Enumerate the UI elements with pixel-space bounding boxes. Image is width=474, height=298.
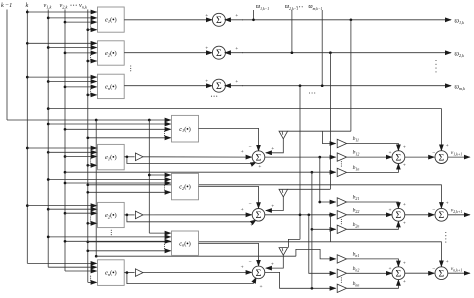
wire input 2 into e1 [48, 17, 96, 19]
junction on input column for e2 input 2 [47, 46, 50, 49]
svg-text:Σ: Σ [396, 210, 402, 221]
wire +v1 to final summator 1 [48, 109, 441, 151]
final summator group n [435, 267, 448, 280]
junction input column lower e1 in 4 [86, 164, 89, 167]
svg-text:+: + [446, 259, 449, 265]
vdots between bn2 and bnn [341, 277, 342, 283]
svg-text:Σ: Σ [396, 269, 402, 280]
wire input 3 into e1 [65, 21, 97, 23]
buffer amp after lower e2 [135, 211, 143, 219]
wire input 4 into lower en [88, 281, 97, 283]
junction v1 c3 [47, 236, 50, 239]
junction input column lower e1 in 1 [26, 147, 29, 150]
function box e2 [98, 41, 125, 65]
junction lower en output split [126, 271, 129, 274]
wire weight summator to final summator 2 [405, 214, 435, 216]
gain triangle b11 [337, 139, 346, 147]
svg-text:Σ: Σ [256, 210, 262, 221]
svg-text:−: − [248, 259, 251, 265]
gain triangle bnn [337, 284, 346, 292]
wire output row to omega_2 [242, 52, 451, 54]
junction v1 c2 [47, 178, 50, 181]
wire vn into c1 [88, 137, 171, 139]
weight summator group n [392, 267, 405, 280]
wire input 2 into lower e1 [48, 151, 96, 153]
wire sig1 down to b21 row [319, 157, 321, 202]
wire k-1 branch vertical [148, 120, 150, 233]
junction sig1 tap down [318, 156, 321, 159]
svg-text:e2(•): e2(•) [105, 50, 117, 57]
junction n-column on v2 long wire [311, 171, 314, 174]
junction on input column for en input 1 [26, 76, 29, 79]
wire input 2 into en [48, 81, 96, 83]
gain triangle b2n [337, 225, 346, 233]
hdots below third top row right [309, 92, 315, 93]
function box lower e2 [98, 202, 125, 227]
delay nabla 1 [279, 131, 288, 139]
gain triangle b1n [337, 168, 346, 176]
junction v2 c3 [64, 240, 67, 243]
svg-text:+: + [241, 265, 244, 271]
wire into b2n [312, 228, 336, 230]
junction on input column for en input 3 [64, 86, 67, 89]
gain triangle bn1 [337, 255, 346, 263]
junction sig2 tap down [307, 213, 310, 216]
vdots before last input of lower e2 [90, 217, 91, 222]
wire input 4 into lower e2 [88, 222, 97, 224]
junction sig1 to b21 [318, 201, 321, 204]
junction input column lower e2 in 4 [86, 222, 89, 225]
svg-text:c2(•): c2(•) [179, 184, 191, 191]
wire e-box output row 2 to summator [124, 52, 212, 54]
wire nabla2 output into group summator 2 [266, 197, 283, 211]
junction sig-n column bottom [311, 287, 314, 290]
wire b21 to weight summator [347, 202, 399, 208]
wire k-1 branch into c2 [149, 174, 170, 176]
wire bypass 1 into group summator bottom [127, 157, 256, 164]
wire output row to omega_m [242, 85, 451, 87]
wire input 2 into lower e2 [48, 208, 96, 210]
wire k-1 branch into c3 [149, 232, 170, 234]
wire k-1 long branch vertical [95, 120, 97, 256]
gain triangle b22 [337, 211, 346, 219]
wire final output n [448, 272, 470, 274]
wire bypass 2 into group summator bottom [127, 215, 256, 222]
junction lower e2 output split [126, 214, 129, 217]
svg-text:Σ: Σ [439, 269, 445, 280]
svg-text:+: + [205, 13, 208, 19]
vdots before last input of en [90, 89, 91, 94]
svg-text:+: + [205, 79, 208, 85]
svg-text:+: + [403, 220, 406, 226]
wire input 1 into e2 [27, 42, 96, 44]
wire vn vertical [87, 10, 89, 283]
svg-text:+: + [250, 222, 253, 228]
wire e-box output row m to summator [124, 85, 212, 87]
ellipsis between v labels [70, 5, 76, 6]
svg-text:+: + [259, 284, 262, 290]
wire into b21 [320, 201, 336, 203]
final summator group 1 [435, 151, 448, 164]
svg-text:Σ: Σ [396, 153, 402, 164]
final summator group 2 [435, 208, 448, 221]
vdots before last input of lower en [90, 276, 91, 281]
wire lower e1 output to buffer [124, 156, 134, 158]
svg-text:Σ: Σ [256, 153, 262, 164]
wire c1 output into group summator top [199, 128, 259, 150]
svg-text:+: + [403, 202, 406, 208]
wire input 1 into en [27, 76, 96, 78]
wire v1 into c1 [48, 123, 170, 125]
wire b22 to weight summator [347, 214, 392, 216]
svg-text:+: + [388, 150, 391, 156]
junction on b22 row with vertical stub [329, 213, 332, 216]
svg-text:−: − [432, 208, 435, 214]
wire input 3 into en [65, 86, 97, 88]
function box en [98, 74, 125, 98]
wire vertical stub x330 down to +vn wire [329, 215, 331, 242]
summator top row m [212, 79, 225, 92]
junction on input column for e2 input 1 [26, 42, 29, 45]
wire v2 into c1 [65, 128, 171, 130]
svg-text:+: + [258, 164, 261, 170]
junction row1 feedback tap [350, 18, 353, 21]
wire sig-n column vertical [311, 172, 313, 288]
svg-text:+: + [235, 13, 238, 19]
junction k-1 branch corner bottom [95, 255, 98, 258]
wire weight summator to final summator 1 [405, 156, 435, 158]
junction vn column to +v wire 3 [86, 240, 89, 243]
wire input 1 into lower en [27, 262, 96, 264]
svg-text:+: + [271, 261, 274, 267]
function box e1 [98, 7, 125, 32]
junction on input column for e1 input 3 [64, 21, 67, 24]
buffer amp after lower e1 [135, 153, 143, 161]
wire input 1 into e1 [27, 11, 96, 13]
function box lower en [98, 260, 125, 286]
svg-text:e2(•): e2(•) [105, 212, 117, 219]
svg-text:+: + [403, 145, 406, 151]
wire b1n to weight summator [347, 164, 399, 173]
delay nabla 3 [279, 248, 288, 256]
wire v2 vertical [64, 10, 66, 272]
buffer amp after lower en [135, 269, 143, 277]
weight summator group 1 [392, 151, 405, 164]
svg-text:+: + [403, 163, 406, 169]
wire final output 1 [448, 156, 470, 158]
wire input 4 into lower e1 [88, 164, 97, 166]
wire omegam k-1 down to row 3 [321, 10, 323, 86]
svg-text:k −1: k −1 [1, 2, 12, 9]
wire input 4 into en [88, 94, 97, 96]
wire k-1 vertical [6, 10, 8, 121]
junction vn c3 [86, 249, 89, 252]
svg-text:−: − [248, 201, 251, 207]
wire tap omega1 to b11 [322, 131, 335, 143]
wire input 3 into lower e2 [65, 212, 97, 214]
svg-text:Σ: Σ [216, 48, 222, 59]
svg-text:+: + [271, 146, 274, 152]
junction row2 feedback tap [329, 51, 332, 54]
junction omegam row3 [321, 84, 324, 87]
wire k-1 branch horizontal to b_n1 riser [96, 255, 296, 257]
wire input 4 into e2 [88, 60, 97, 62]
wire bn1 to weight summator [347, 259, 399, 267]
junction k-1 branch to c2 [148, 174, 151, 177]
wire vn into c2 [88, 191, 171, 193]
wire input 1 into lower e2 [27, 205, 96, 207]
junction lower e1 output split [126, 155, 129, 158]
summator top row 2 [212, 46, 225, 59]
wire group summator 3 output to b_nn [265, 272, 336, 288]
wire v2 into c3 [65, 240, 171, 242]
hdots below en box [211, 96, 217, 97]
junction v2 to b1n long wire [64, 171, 67, 174]
svg-text:+: + [235, 79, 238, 85]
junction on input column for en input 2 [47, 80, 50, 83]
vdots before last input of c2 [164, 185, 165, 190]
group summator n [252, 266, 265, 279]
function box c2 [172, 173, 199, 199]
wire right input into top summator 2 [225, 52, 243, 54]
junction row3 feedback tap [299, 84, 302, 87]
wire feedback omega2 vertical [329, 53, 331, 190]
wire k-1 into c1 input 1 [7, 119, 171, 121]
wire input 3 into e2 [65, 52, 97, 54]
wire bypass n into group summator bottom [127, 273, 256, 284]
wire feedback omega1 into nabla1 [288, 130, 351, 132]
junction on input column for e1 input 4 [86, 28, 89, 31]
svg-text:Σ: Σ [439, 153, 445, 164]
junction k-1 branch down [148, 119, 151, 122]
junction input column lower e1 in 3 [64, 155, 67, 158]
wire right input into top summator 1 [225, 19, 243, 21]
wire feedback omega1 vertical [350, 20, 352, 131]
wire b12 to weight summator [347, 156, 392, 158]
vdots before last input of c1 [164, 131, 165, 136]
svg-text:−: − [248, 144, 251, 150]
wire k vertical [26, 10, 28, 264]
function box cn [172, 231, 199, 255]
wire output row to omega_1 [242, 19, 451, 21]
junction v2 c2 [64, 182, 67, 185]
wire sig2 down into b_n2 [309, 215, 336, 273]
wire nabla3 output into group summator 3 [266, 255, 283, 268]
ellipsis between omega labels [296, 6, 302, 7]
vdots below lower e2 box [111, 230, 112, 236]
wire k-1 branch into b_n1 [296, 249, 336, 259]
svg-text:en(•): en(•) [105, 84, 117, 91]
svg-text:+: + [241, 207, 244, 213]
wire buffer 2 to group summator left [143, 214, 252, 216]
svg-text:+: + [403, 279, 406, 285]
gain triangle b21 [337, 198, 346, 206]
svg-text:+: + [235, 46, 238, 52]
wire v1 into c2 [48, 179, 170, 181]
wire buffer 1 to group summator left [143, 156, 252, 158]
wire lower e2 output to buffer [124, 214, 134, 216]
wire v2 long feed into b1n [65, 171, 336, 173]
group summator 2 [252, 209, 265, 222]
vdots before last input of e2 [90, 55, 91, 60]
wire vn into c3 [88, 250, 171, 252]
wire +vn to final summator 3 [88, 242, 442, 267]
gain triangle b12 [337, 153, 346, 161]
wire input 3 into lower en [65, 270, 97, 272]
vdots between omega outputs [435, 60, 436, 72]
wire v1 into c3 [48, 236, 170, 238]
junction on input column for e1 input 2 [47, 17, 50, 20]
vdots before last input of e1 [90, 24, 91, 29]
wire group summator 2 output to b22 [265, 214, 336, 216]
delay nabla 2 [279, 189, 288, 197]
svg-text:Σ: Σ [216, 15, 222, 26]
wire input 3 into lower e1 [65, 156, 97, 158]
junction vn column to +v wire 2 [86, 183, 89, 186]
wire input 1 into lower e1 [27, 147, 96, 149]
svg-text:+: + [446, 143, 449, 149]
wire v1 vertical [47, 10, 49, 268]
svg-text:en(•): en(•) [105, 270, 117, 277]
svg-text:Σ: Σ [439, 210, 445, 221]
junction omega2 row2 [291, 51, 294, 54]
wire nabla1 output into group summator 1 [266, 139, 283, 153]
junction on input column for e2 input 4 [86, 60, 89, 63]
junction v2 c1 [64, 128, 67, 131]
svg-text:Σ: Σ [216, 81, 222, 92]
junction vn c1 [86, 136, 89, 139]
junction omegam line on sig2 row [299, 213, 302, 216]
svg-text:e1(•): e1(•) [105, 17, 117, 24]
wire right input into top summator m [225, 85, 243, 87]
wire feedback omegam jog into nabla3 [288, 239, 300, 247]
wire omega2 k-1 down to row 2 [291, 10, 293, 53]
gain triangle bn2 [337, 269, 346, 277]
wire e-box output row 1 to summator [124, 19, 212, 21]
wire group summator 1 output to b12 [265, 156, 336, 158]
wire omega1 k-1 down to row 1 [253, 10, 255, 20]
svg-text:c1(•): c1(•) [179, 126, 191, 133]
vdots between b22 and b2n [341, 219, 342, 225]
svg-text:Σ: Σ [256, 268, 262, 279]
svg-text:+: + [205, 46, 208, 52]
svg-text:+: + [388, 208, 391, 214]
wire bn2 to weight summator [347, 272, 392, 274]
function box lower e1 [98, 144, 125, 169]
wire input 2 into lower en [48, 266, 96, 268]
vdots before last input of cn [164, 244, 165, 249]
junction v1 c1 [47, 123, 50, 126]
wire buffer n to group summator left [143, 271, 252, 273]
junction sig-n to b2n [311, 228, 314, 231]
wire input 4 into e1 [88, 29, 97, 31]
wire v2 into c2 [65, 182, 171, 184]
svg-text:k: k [26, 2, 29, 9]
summator top row 1 [212, 13, 225, 26]
wire +v2 to final summator 2 [88, 185, 442, 208]
junction input column lower e2 in 1 [26, 204, 29, 207]
wire b2n to weight summator [347, 221, 399, 229]
junction input column lower e2 in 3 [64, 212, 67, 215]
junction v1 to +v wire [47, 107, 50, 110]
junction input column lower e1 in 2 [47, 151, 50, 154]
vdots between b12 and b1n [341, 161, 342, 167]
wire lower en output to buffer [124, 272, 134, 274]
svg-text:−: − [432, 266, 435, 272]
svg-text:e1(•): e1(•) [105, 154, 117, 161]
wire bnn to weight summator [347, 280, 399, 289]
wire final output 2 [448, 214, 470, 216]
junction on input column for e2 input 3 [64, 52, 67, 55]
junction k-1 to long branch [95, 119, 98, 122]
wire feedback omegam vertical [299, 86, 301, 240]
svg-text:+: + [446, 201, 449, 207]
vdots between e2 and en rows [130, 65, 131, 71]
junction on input column for en input 4 [86, 94, 89, 97]
wire c2 output into group summator top [199, 186, 259, 208]
junction input column lower e2 in 2 [47, 208, 50, 211]
junction on input column for e1 input 1 [26, 11, 29, 14]
wire input 2 into e2 [48, 47, 96, 49]
wire weight summator to final summator n [405, 272, 435, 274]
junction vn c2 [86, 191, 89, 194]
svg-text:+: + [403, 261, 406, 267]
svg-text:cn(•): cn(•) [179, 240, 191, 247]
junction omega1 row1 [252, 18, 255, 21]
function box c1 [172, 115, 199, 142]
wire cn output into group summator top [199, 243, 259, 265]
wire b11 to weight summator [347, 144, 399, 151]
vdots before last input of lower e1 [90, 159, 91, 164]
svg-text:−: − [432, 150, 435, 156]
svg-text:+: + [271, 204, 274, 210]
svg-text:+: + [388, 266, 391, 272]
svg-text:+: + [241, 149, 244, 155]
weight summator group 2 [392, 208, 405, 221]
vdots between v2 and vn outputs [445, 232, 446, 243]
wire feedback omega2 into nabla2 [288, 188, 331, 190]
group summator 1 [252, 151, 265, 164]
